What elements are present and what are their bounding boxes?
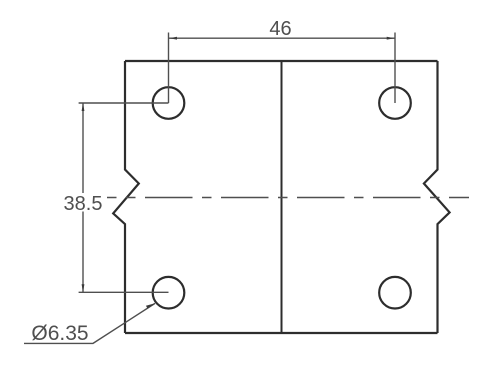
plate middle vertical parting line [281,61,283,333]
leader arrowhead [146,303,156,308]
hole bottom-right [379,277,411,309]
plate bottom edge [125,332,438,334]
svg-text:46: 46 [269,18,291,40]
svg-text:Ø6.35: Ø6.35 [31,322,88,345]
svg-text:38.5: 38.5 [64,193,103,215]
plate right edge with break symbol [424,61,450,333]
hole bottom-left [153,277,185,309]
extension line left for dim 46 [168,33,170,104]
hole top-right [379,87,411,119]
dimension line 38.5 lower segment [82,212,84,293]
hole top-left [153,87,185,119]
dimension line 46 [169,37,395,39]
plate left edge with break symbol [113,61,139,333]
dimension line 38.5 upper segment [82,103,84,193]
extension line bottom for dim 38.5 [79,291,169,293]
extension line right for dim 46 [394,33,396,104]
arrowhead right of dim 46 [387,37,395,40]
extension line top for dim 38.5 [79,102,169,104]
arrowhead bottom of dim 38.5 [82,284,85,292]
arrowhead top of dim 38.5 [82,103,85,111]
plate top edge [125,60,438,62]
arrowhead left of dim 46 [169,37,177,40]
leader line for hole diameter [24,303,155,343]
horizontal dashed centerline [107,197,469,199]
